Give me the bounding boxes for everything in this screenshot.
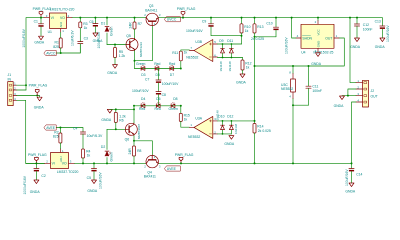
- resistor R10: [241, 18, 243, 24]
- svg-text:MMBT2907: MMBT2907: [137, 124, 141, 139]
- svg-text:GNDA: GNDA: [93, 39, 104, 43]
- svg-text:OUT: OUT: [325, 36, 332, 40]
- svg-text:GND: GND: [317, 41, 321, 47]
- svg-text:R7: R7: [138, 22, 142, 26]
- voltage reference U4 MCP1502: [301, 24, 334, 48]
- LED D5: [155, 67, 159, 71]
- transistor Q5: [126, 39, 138, 51]
- svg-text:100uF/10V: 100uF/10V: [162, 82, 179, 86]
- svg-text:SHDN: SHDN: [302, 36, 312, 40]
- ground GNDA under C2: [34, 180, 39, 184]
- junction C1 top rail: [40, 17, 42, 19]
- svg-text:C10: C10: [266, 22, 272, 26]
- junction U3C rail: [292, 162, 294, 164]
- svg-text:C5: C5: [87, 176, 91, 180]
- svg-text:BAX411: BAX411: [145, 8, 157, 12]
- svg-text:C13: C13: [375, 19, 381, 23]
- junction row1 right: [180, 68, 182, 70]
- svg-text:BAX411: BAX411: [144, 175, 156, 179]
- junction R3 rail: [79, 17, 81, 19]
- net label UVEE: [165, 166, 181, 171]
- junction D9 top: [222, 43, 224, 45]
- svg-text:GNDA: GNDA: [30, 190, 41, 194]
- svg-text:D11: D11: [227, 39, 233, 43]
- power flag PWR_FLAG top left: [39, 12, 43, 18]
- svg-text:VI: VI: [51, 16, 54, 20]
- svg-text:IN: IN: [8, 77, 12, 81]
- capacitor C6: [94, 18, 96, 24]
- transistor Q6: [125, 123, 137, 135]
- ground GNDA above R6: [107, 109, 112, 113]
- svg-text:D1: D1: [101, 21, 105, 25]
- svg-text:D2: D2: [101, 145, 105, 149]
- diode D9: [222, 44, 224, 58]
- svg-text:1N4148: 1N4148: [215, 110, 219, 121]
- svg-text:MMBT2222: MMBT2222: [139, 42, 143, 57]
- wire J2 pin4: [352, 102, 357, 163]
- svg-text:Red: Red: [154, 62, 160, 66]
- power flag PWR_FLAG bottom middle: [179, 157, 183, 163]
- svg-text:1N4448: 1N4448: [228, 61, 232, 72]
- wire J1 pin2: [17, 89, 26, 91]
- svg-text:1000uF/16V: 1000uF/16V: [22, 28, 26, 47]
- svg-text:UVCC: UVCC: [167, 18, 177, 22]
- svg-text:C11: C11: [312, 84, 318, 88]
- power flag PWR_FLAG at J1: [35, 90, 39, 96]
- net label UVCC: [165, 17, 181, 22]
- svg-text:R14: R14: [257, 125, 263, 129]
- regulator U1 LM317L: [44, 18, 72, 33]
- wire J2 pin3: [342, 95, 356, 97]
- svg-text:NE5532: NE5532: [188, 135, 200, 139]
- svg-text:PWR_FLAG: PWR_FLAG: [28, 153, 47, 157]
- wire J1 pin1: [17, 84, 26, 86]
- capacitor C12: [356, 18, 358, 24]
- resistor R7: [134, 18, 136, 22]
- capacitor C7: [158, 69, 160, 80]
- svg-text:PWR_FLAG: PWR_FLAG: [177, 7, 196, 11]
- connector J2: [363, 80, 369, 107]
- svg-text:1000uF/16V: 1000uF/16V: [23, 175, 27, 194]
- svg-text:C12: C12: [363, 23, 369, 27]
- wire U3B minus input: [217, 57, 242, 59]
- svg-text:100nF: 100nF: [363, 28, 373, 32]
- svg-text:GNDA: GNDA: [345, 189, 356, 193]
- wire U3A output: [181, 121, 190, 127]
- wire Q5 base: [107, 44, 127, 46]
- resistor R12: [242, 58, 244, 61]
- svg-text:NE5532: NE5532: [281, 87, 293, 91]
- regulator U2 LM337: [45, 149, 75, 164]
- svg-text:10uF/6.3V: 10uF/6.3V: [87, 134, 103, 138]
- junction R8 bracket: [133, 140, 135, 142]
- svg-text:C4: C4: [73, 126, 77, 130]
- junction U4 vcc rail: [317, 17, 319, 19]
- capacitor C10: [275, 18, 277, 27]
- svg-text:Green: Green: [136, 62, 146, 66]
- svg-text:ADJ: ADJ: [59, 156, 63, 162]
- junction R1 AVCC: [60, 52, 62, 54]
- LED D1: [105, 26, 109, 28]
- junction C9 rail: [210, 17, 212, 19]
- svg-text:1k: 1k: [245, 29, 249, 33]
- diode D10: [222, 121, 224, 134]
- svg-text:GNDA: GNDA: [334, 104, 345, 108]
- wire J1 pin3: [17, 96, 40, 98]
- wire top rail right segment: [72, 18, 382, 26]
- net label AVEE: [44, 125, 56, 130]
- svg-text:U4: U4: [301, 50, 305, 54]
- op-amp power unit U3C: [292, 66, 294, 105]
- junction D12 top: [231, 120, 233, 122]
- ground GNDA under R5: [113, 65, 118, 69]
- wire U3B plus input: [217, 43, 241, 45]
- junction J1 pin1: [25, 84, 27, 86]
- junction C2 rail: [35, 162, 37, 164]
- resistor R6: [115, 109, 117, 112]
- junction row2 left: [133, 105, 135, 107]
- svg-text:Green: Green: [169, 107, 179, 111]
- svg-text:Q5: Q5: [126, 34, 131, 38]
- capacitor C1: [40, 18, 42, 24]
- svg-text:C7: C7: [145, 78, 149, 82]
- capacitor C14: [351, 163, 353, 168]
- capacitor C9: [210, 18, 212, 24]
- svg-text:Green: Green: [110, 152, 114, 162]
- wire D2 column: [106, 129, 108, 163]
- net label AVCC: [44, 50, 56, 55]
- ground GNDA at J1: [37, 97, 42, 101]
- svg-text:U3B: U3B: [195, 40, 202, 44]
- svg-text:GNDA: GNDA: [34, 106, 45, 110]
- ground GNDA under C1: [39, 36, 44, 40]
- junction C5 rail: [93, 162, 95, 164]
- wire Q6 collector: [133, 109, 135, 123]
- svg-text:100uF/16V: 100uF/16V: [186, 29, 203, 33]
- svg-text:2k 0.025: 2k 0.025: [258, 129, 271, 133]
- svg-text:10uF/6.3V: 10uF/6.3V: [71, 30, 75, 46]
- svg-text:100uF/10V: 100uF/10V: [132, 89, 149, 93]
- svg-text:AVCC: AVCC: [46, 51, 56, 55]
- junction U3C bottom: [292, 104, 294, 106]
- resistor R8: [133, 141, 135, 146]
- svg-text:J1: J1: [8, 73, 12, 77]
- power flag PWR_FLAG bottom left: [35, 157, 39, 163]
- svg-text:100uF/16V: 100uF/16V: [98, 172, 102, 189]
- junction U3C top: [292, 65, 294, 67]
- ground GNDA under C13: [380, 38, 385, 42]
- junction C11 top: [308, 65, 310, 67]
- capacitor C4: [80, 132, 85, 134]
- junction J2 ground: [347, 95, 349, 97]
- junction R14 rail: [254, 162, 256, 164]
- svg-text:VCC: VCC: [317, 29, 321, 35]
- ground GNDA under C5: [92, 180, 97, 184]
- wire Q6 emitter bracket: [134, 136, 152, 156]
- svg-text:100uF/16V: 100uF/16V: [345, 169, 349, 186]
- svg-text:1.2k: 1.2k: [119, 54, 126, 58]
- ground GNDA under U4: [316, 53, 321, 57]
- junction R5 on base wire: [114, 44, 116, 46]
- svg-text:D4: D4: [141, 97, 145, 101]
- wire U3A plus input: [217, 120, 254, 122]
- junction D11 top: [231, 43, 233, 45]
- resistor R15: [180, 106, 182, 114]
- ground GNDA under C12: [355, 38, 360, 42]
- junction PWR_FLAG mid rail: [182, 17, 184, 19]
- junction vref R14 tap: [254, 120, 256, 122]
- svg-text:1k: 1k: [87, 153, 91, 157]
- junction R10 C9: [241, 35, 243, 37]
- svg-text:Q4: Q4: [147, 170, 152, 174]
- junction bracket row1: [134, 60, 136, 62]
- svg-text:Red: Red: [169, 62, 175, 66]
- svg-text:D3: D3: [141, 73, 145, 77]
- junction D11 bottom: [231, 57, 233, 59]
- ground GNDA under D12: [229, 136, 234, 140]
- wire U3B output: [181, 50, 190, 51]
- junction J2 feed rail: [349, 17, 351, 19]
- wire J2 pin1 feed: [350, 18, 356, 83]
- junction C10 rail: [275, 17, 277, 19]
- svg-text:C6: C6: [89, 20, 93, 24]
- wire LED row1: [135, 68, 181, 70]
- svg-text:OUT: OUT: [371, 94, 378, 98]
- svg-text:R11: R11: [172, 51, 178, 55]
- resistor R2: [59, 128, 61, 134]
- svg-text:C2: C2: [41, 174, 45, 178]
- diode D12: [230, 121, 232, 134]
- svg-text:PWR_FLAG: PWR_FLAG: [175, 153, 194, 157]
- capacitor C8: [156, 91, 161, 93]
- wire J2 pin2: [348, 89, 356, 96]
- junction R10 rail: [241, 17, 243, 19]
- svg-text:24R: 24R: [128, 22, 132, 29]
- svg-text:LM317L/TO-220: LM317L/TO-220: [50, 7, 75, 11]
- junction R4 rail: [82, 162, 84, 164]
- svg-text:24R: 24R: [128, 148, 132, 155]
- junction PWR_FLAG bottom rail: [180, 162, 182, 164]
- svg-text:1N4148: 1N4148: [234, 123, 238, 134]
- LED D4: [141, 104, 145, 108]
- wire AVCC node: [56, 44, 80, 53]
- svg-text:1N4448: 1N4448: [219, 61, 223, 72]
- svg-text:GNDA: GNDA: [224, 142, 235, 146]
- svg-text:NE5532: NE5532: [186, 55, 198, 59]
- resistor R1: [60, 32, 62, 38]
- svg-text:R8: R8: [137, 149, 141, 153]
- junction R6 base: [115, 128, 117, 130]
- wire R6 top row: [110, 106, 134, 110]
- wire top rail left segment: [26, 18, 44, 90]
- junction U4 shdn rail: [291, 17, 293, 19]
- svg-text:D6: D6: [156, 97, 160, 101]
- wire Q5 emitter down: [134, 51, 136, 69]
- junction C12 rail: [356, 17, 358, 19]
- junction vref left: [254, 65, 256, 67]
- svg-text:GNDA: GNDA: [34, 41, 45, 45]
- junction row2 right: [180, 105, 182, 107]
- svg-text:100nF: 100nF: [312, 89, 322, 93]
- wire Q6 base: [107, 128, 126, 130]
- LED D6: [156, 104, 160, 108]
- svg-text:VO: VO: [60, 16, 65, 20]
- transistor Q4: [146, 155, 158, 167]
- svg-text:100uF/16V: 100uF/16V: [284, 37, 288, 54]
- wire U3C to bottom rail: [292, 105, 294, 163]
- svg-text:PWR_FLAG: PWR_FLAG: [29, 83, 48, 87]
- svg-text:Red: Red: [155, 107, 161, 111]
- svg-text:GNDA: GNDA: [101, 118, 112, 122]
- svg-text:C1: C1: [34, 19, 38, 23]
- ground GNDA under C14: [349, 183, 354, 187]
- junction Q6 collector node: [133, 108, 135, 110]
- svg-text:VI: VI: [52, 162, 55, 166]
- svg-text:U1: U1: [48, 30, 52, 34]
- op-amp U3B: [194, 40, 213, 62]
- svg-text:ADJ: ADJ: [59, 21, 63, 27]
- svg-text:D7: D7: [170, 73, 174, 77]
- transistor Q3: [146, 13, 158, 25]
- wire C11 bottom: [293, 104, 309, 106]
- capacitor C11: [308, 66, 310, 86]
- svg-text:825: 825: [53, 135, 59, 139]
- LED D2: [105, 150, 109, 152]
- junction vref R13: [254, 36, 256, 38]
- junction R2 AVEE: [59, 127, 61, 129]
- svg-text:AVEE: AVEE: [46, 126, 56, 130]
- svg-text:D8: D8: [173, 97, 177, 101]
- junction D9 bottom: [222, 57, 224, 59]
- junction R8 rail: [133, 162, 135, 164]
- svg-text:PWR_FLAG: PWR_FLAG: [33, 7, 52, 11]
- LED D8: [171, 104, 175, 108]
- LED D3: [141, 67, 145, 71]
- svg-text:1k: 1k: [246, 66, 250, 70]
- svg-text:C3: C3: [84, 37, 88, 41]
- svg-text:C9: C9: [202, 20, 206, 24]
- svg-text:GNDA: GNDA: [87, 189, 98, 193]
- resistor R13: [254, 18, 256, 24]
- diode D11: [230, 44, 232, 58]
- svg-text:C8: C8: [162, 93, 166, 97]
- op-amp U3A: [194, 116, 213, 138]
- svg-text:100uF/16V: 100uF/16V: [386, 25, 390, 42]
- svg-text:825: 825: [53, 45, 59, 49]
- svg-text:GNDA: GNDA: [311, 62, 322, 66]
- svg-text:Green: Green: [110, 26, 114, 36]
- wire D1 column: [106, 18, 108, 45]
- junction D2 rail: [106, 162, 108, 164]
- svg-text:1k: 1k: [184, 51, 188, 55]
- resistor R11: [180, 51, 182, 68]
- svg-text:D5: D5: [156, 73, 160, 77]
- connector J1: [8, 82, 14, 106]
- svg-text:Q6: Q6: [125, 138, 130, 142]
- wire bottom rail left: [26, 162, 45, 164]
- wire C9 bottom to R10: [211, 27, 242, 36]
- wire J1 pin4 to LM337 input: [17, 100, 45, 163]
- svg-text:D9: D9: [219, 39, 223, 43]
- power flag PWR_FLAG top middle: [181, 12, 185, 18]
- wire LED row2: [134, 105, 181, 107]
- svg-text:J2: J2: [371, 89, 375, 93]
- svg-text:LM337.TO220: LM337.TO220: [57, 170, 79, 174]
- ground GNDA under R12: [240, 74, 245, 78]
- resistor R4: [82, 149, 85, 158]
- svg-text:GNDA: GNDA: [375, 45, 386, 49]
- svg-text:GNDA: GNDA: [236, 81, 247, 85]
- svg-text:2x 0.025: 2x 0.025: [251, 37, 264, 41]
- svg-text:U3A: U3A: [195, 117, 202, 121]
- wire U3A minus input: [217, 133, 231, 135]
- svg-text:D12: D12: [227, 115, 233, 119]
- svg-text:1k: 1k: [184, 118, 188, 122]
- LED D7: [170, 67, 174, 71]
- junction J1 pin3 flag: [36, 95, 38, 97]
- ground GNDA under C6: [93, 33, 98, 37]
- junction C6 rail: [94, 17, 96, 19]
- capacitor C5: [93, 163, 95, 168]
- junction D1 rail: [106, 17, 108, 19]
- wire vref node: [255, 37, 277, 124]
- junction C14 rail: [351, 162, 353, 164]
- junction D10 bottom: [222, 133, 224, 135]
- svg-text:1k: 1k: [84, 26, 88, 30]
- resistor R5: [114, 45, 116, 48]
- wire Q3 base bracket: [135, 25, 153, 60]
- wire AVEE row: [56, 128, 83, 132]
- capacitor C13: [380, 25, 385, 27]
- junction R13 rail: [254, 17, 256, 19]
- junction R7 rail: [134, 17, 136, 19]
- svg-text:R6: R6: [119, 119, 123, 123]
- capacitor C2: [35, 163, 37, 168]
- svg-text:GNDA: GNDA: [350, 45, 361, 49]
- capacitor C3: [78, 42, 83, 44]
- resistor R14: [253, 124, 256, 134]
- wire vref to U4 out: [255, 38, 345, 66]
- wire bottom rail right: [74, 162, 351, 164]
- svg-text:R13: R13: [257, 25, 263, 29]
- svg-text:C14: C14: [356, 173, 362, 177]
- svg-text:UVEE: UVEE: [167, 167, 177, 171]
- resistor R3: [79, 18, 81, 22]
- svg-text:GNDA: GNDA: [107, 71, 118, 75]
- ground GNDA at J2: [340, 96, 345, 100]
- junction R6 top: [115, 108, 117, 110]
- svg-text:Red: Red: [139, 107, 145, 111]
- junction D10 top: [222, 120, 224, 122]
